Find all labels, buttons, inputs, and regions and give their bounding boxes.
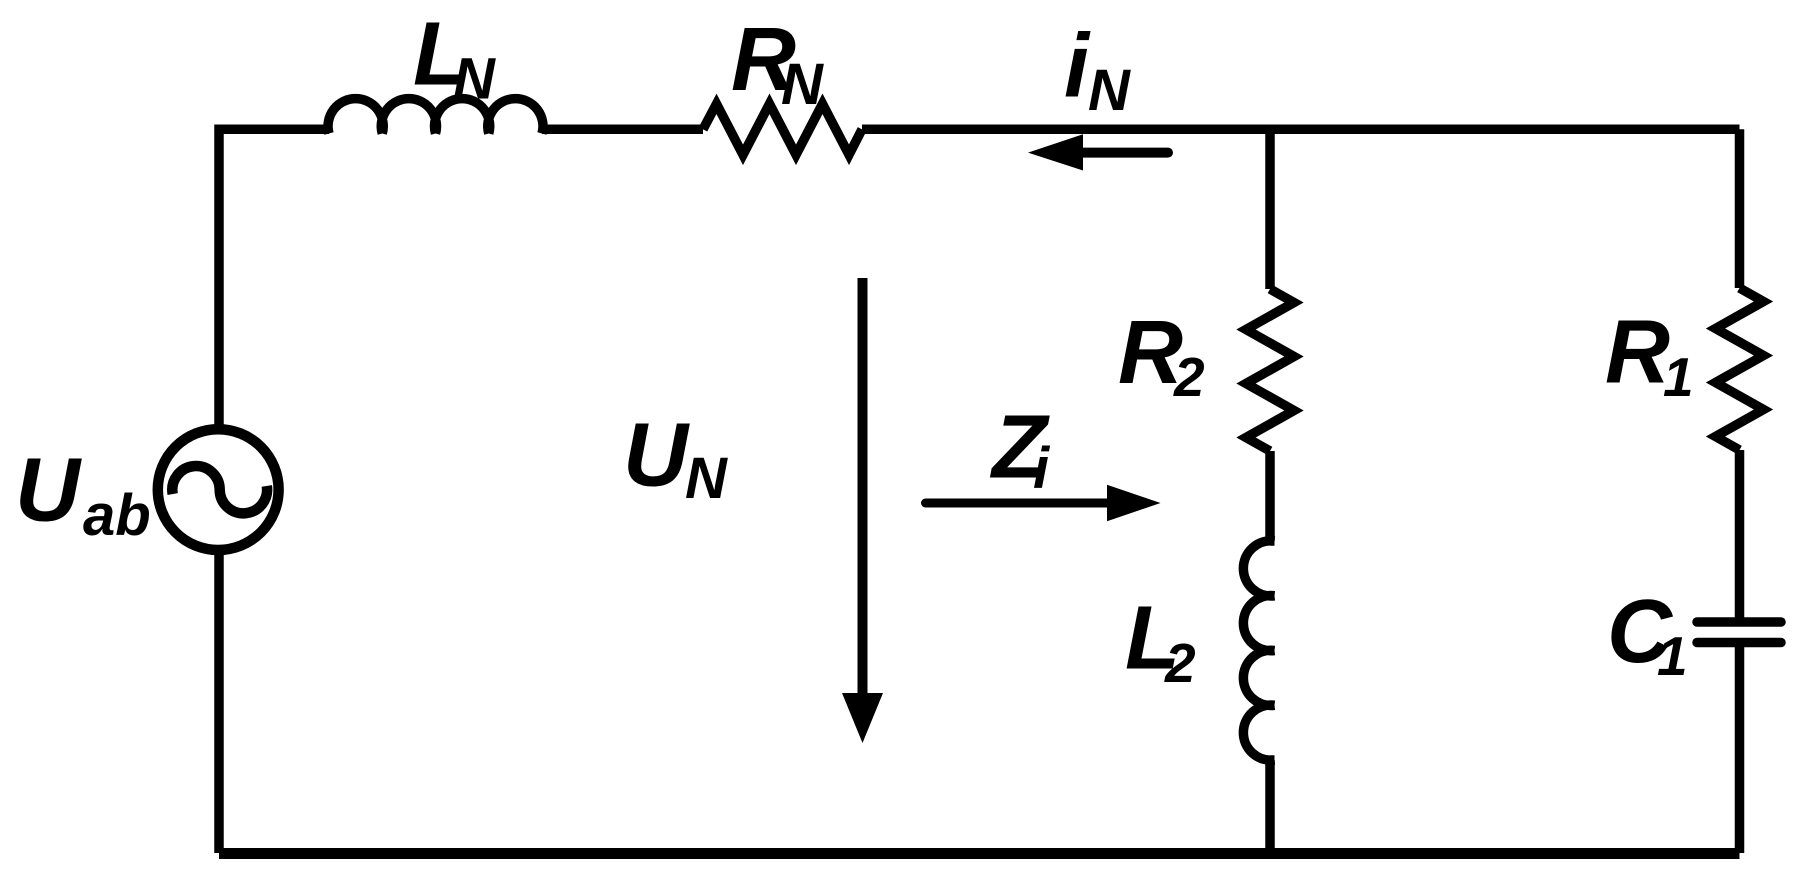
middle branch mid wire [1265, 451, 1275, 541]
bottom rail [219, 848, 1740, 859]
wire left loop [219, 129, 329, 853]
svg-text:N: N [453, 47, 496, 112]
svg-text:2: 2 [1164, 632, 1196, 694]
right branch mid wire [1735, 450, 1745, 622]
capacitor C1 bottom plate [1697, 638, 1781, 648]
svg-text:i: i [1033, 436, 1051, 501]
middle branch top wire [1265, 129, 1275, 289]
source sine wave [172, 466, 267, 513]
svg-text:1: 1 [1663, 346, 1694, 408]
impedance arrow Zi [926, 499, 1111, 508]
wire between LN and RN [542, 125, 703, 135]
svg-text:i: i [1064, 17, 1091, 117]
inductor L2 [1243, 541, 1274, 760]
svg-text:2: 2 [1173, 346, 1205, 408]
current arrow iN [1083, 148, 1168, 158]
source Uab circle [158, 429, 279, 550]
resistor R1 [1716, 288, 1764, 450]
capacitor C1 top plate [1697, 617, 1781, 627]
svg-text:U: U [15, 441, 82, 541]
middle branch bottom wire [1265, 760, 1275, 853]
right branch bottom wire [1735, 643, 1745, 854]
right branch top wire [1735, 129, 1745, 288]
voltage arrow UN [858, 278, 868, 698]
svg-text:U: U [623, 406, 690, 506]
svg-text:N: N [1088, 58, 1131, 123]
resistor R2 [1246, 289, 1294, 451]
inductor LN [328, 99, 543, 134]
svg-text:1: 1 [1657, 625, 1688, 687]
resistor RN [703, 104, 862, 155]
wire top-right segment [862, 125, 1740, 135]
svg-text:ab: ab [83, 483, 151, 548]
svg-text:N: N [685, 446, 728, 511]
svg-text:R: R [1605, 303, 1670, 403]
svg-text:N: N [781, 52, 824, 117]
